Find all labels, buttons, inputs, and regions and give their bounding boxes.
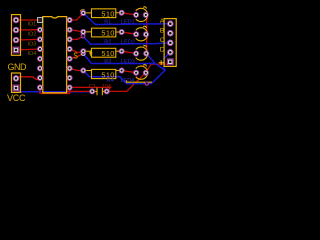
- wire red LED4 right pad to header pin5: [146, 62, 171, 73]
- header JP2 pad C: [168, 40, 174, 46]
- header JP2 pad A: [168, 21, 174, 27]
- svg-text:104: 104: [102, 84, 111, 90]
- svg-text:C: C: [160, 37, 165, 44]
- svg-text:510: 510: [101, 9, 114, 18]
- resistor R3: [81, 48, 124, 58]
- connector J2 VCC outline: [12, 73, 21, 92]
- via V4 on blue bottom-right line: [145, 82, 148, 85]
- svg-text:S: S: [73, 50, 78, 60]
- wire IO1 red trace JP1-1 to IC pin1: [16, 19, 40, 21]
- IC U1 pin12 pad: [67, 56, 72, 61]
- header JP2 pad D: [168, 50, 174, 56]
- svg-text:R3: R3: [104, 59, 111, 65]
- wire red IC pin9 to C1 right pad: [70, 87, 111, 91]
- connector JP1 pad 4 square (IO4): [13, 47, 19, 53]
- wire red R4 right pad to LED4 left pad: [122, 71, 137, 73]
- wire blue via V3 through bottom chain: [83, 54, 165, 84]
- wire blue LED3 right pad to joint: [146, 54, 155, 64]
- wire red IC pin13 to R3 left pad: [70, 49, 84, 53]
- yellow silkscreen line bottom right: [126, 81, 152, 83]
- LED4: [134, 65, 149, 80]
- capacitor C1 silkscreen: [90, 88, 110, 96]
- IC U1 pin10 pad: [67, 75, 72, 80]
- svg-text:LED2: LED2: [121, 39, 135, 45]
- wire blue R4 left pad to bottom chain: [83, 71, 126, 84]
- IC U1 body outline DIP-16: [43, 17, 67, 93]
- resistor R4: [81, 68, 124, 80]
- IC U1 pin8 pad: [37, 85, 42, 90]
- silkscreen plus mark header pin5: [159, 60, 164, 65]
- wire IO4 red trace JP1-4 to IC pin4: [16, 49, 40, 50]
- connector JP1 pad 3 (IO3): [13, 37, 19, 43]
- IC U1 pin2 pad: [37, 27, 42, 32]
- wire IO3 red trace JP1-3 to IC pin3: [16, 38, 40, 41]
- IC U1 pin14 pad: [67, 37, 72, 42]
- via V2 purple ring: [81, 34, 85, 38]
- wire red IC pin15 to R2 left pad: [70, 30, 84, 32]
- connector JP1 outline: [12, 15, 21, 56]
- svg-text:GND: GND: [8, 62, 28, 72]
- wire blue header pad D stub: [164, 52, 170, 69]
- header JP2 pad 5 square: [167, 59, 173, 65]
- LED3: [134, 46, 149, 61]
- svg-text:510: 510: [101, 29, 114, 38]
- wire blue VCC bottom trace to C1: [16, 88, 92, 92]
- connector JP1 pad 1 (IO1): [13, 17, 19, 23]
- IC U1 pin5 pad: [37, 56, 42, 61]
- wire red C1 right pad to LED4 right pad: [107, 73, 146, 92]
- wire red R3 right pad to LED3 left pad: [122, 51, 137, 53]
- connector J2 pad 1 round: [13, 76, 19, 82]
- svg-text:R2: R2: [104, 39, 111, 45]
- wire red IC pin9 to C1 left pad: [67, 88, 92, 92]
- IC U1 pin7 pad: [37, 75, 42, 80]
- wire red vertical LED1-LED2-LED3 right pads: [145, 15, 148, 54]
- svg-text:IO2: IO2: [28, 32, 37, 38]
- wire red IC pin11 to R4 left pad: [70, 68, 84, 70]
- wire red IC pin12 to via V3: [70, 54, 84, 59]
- svg-text:IO3: IO3: [28, 41, 37, 47]
- svg-text:LED3: LED3: [121, 59, 135, 65]
- wire VCC red trace to IC pin7: [16, 77, 40, 80]
- header JP2 outline: [164, 19, 176, 67]
- IC U1 pin15 pad: [67, 27, 72, 32]
- IC U1 pin13 pad: [67, 46, 72, 51]
- resistor R2: [81, 28, 124, 38]
- silkscreen plus mark: [89, 51, 92, 56]
- svg-text:LED4: LED4: [121, 78, 135, 84]
- connector J2 pad 2 square: [13, 85, 19, 91]
- header JP2 pad B: [168, 30, 174, 36]
- svg-text:R1: R1: [104, 20, 111, 26]
- wire blue R1 left pad to header pad A: [83, 13, 170, 24]
- wire red R2 right pad to LED2 left pad: [122, 32, 137, 34]
- IC U1 pin3 pad: [37, 37, 42, 42]
- LED2: [134, 26, 149, 41]
- resistor R1: [80, 9, 124, 19]
- svg-text:510: 510: [101, 49, 114, 58]
- IC U1 pin16 pad: [67, 17, 72, 22]
- wire red IC pin14 to via V2: [70, 36, 83, 39]
- IC U1 pin9 pad: [67, 85, 72, 90]
- svg-text:B: B: [160, 28, 165, 35]
- svg-text:LED1: LED1: [121, 20, 135, 26]
- wire red IC pin8 to pin9 around bottom: [40, 88, 70, 94]
- IC U1 pin6 pad: [37, 66, 42, 71]
- wire blue via V2 to header pad C: [83, 36, 170, 44]
- IC U1 pin4 pad: [37, 46, 42, 51]
- wire red R1 right pad to LED1 left pad: [122, 13, 137, 15]
- wire red IC pin16 to R1 left pad: [70, 13, 84, 20]
- svg-text:IO1: IO1: [28, 22, 37, 28]
- IC U1 pin11 pad: [67, 66, 72, 71]
- svg-text:IO4: IO4: [28, 51, 37, 57]
- svg-text:A: A: [160, 18, 165, 25]
- svg-text:VCC: VCC: [7, 93, 26, 103]
- via V3 white ring: [81, 52, 85, 56]
- svg-text:C1: C1: [89, 84, 96, 90]
- svg-text:D: D: [160, 47, 165, 54]
- connector JP1 pad 2 (IO2): [13, 27, 19, 33]
- wire IO2 red trace JP1-2 to IC pin2: [16, 29, 40, 31]
- IC U1 pin1 square pad: [38, 18, 43, 23]
- LED1: [134, 7, 149, 22]
